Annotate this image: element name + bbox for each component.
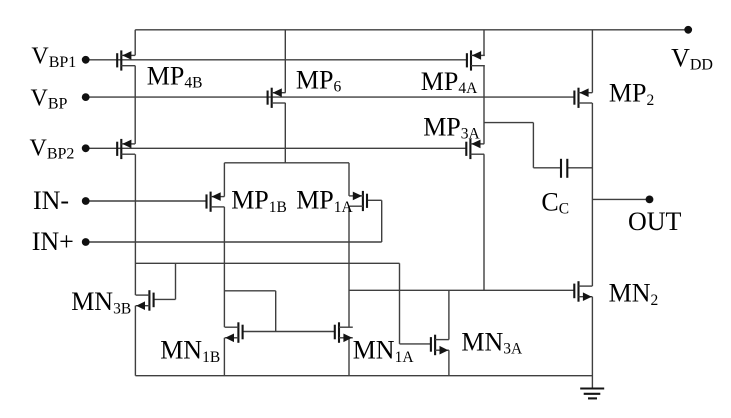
- svg-text:IN+: IN+: [32, 227, 74, 256]
- svg-text:IN-: IN-: [33, 186, 69, 215]
- svg-text:OUT: OUT: [628, 207, 682, 236]
